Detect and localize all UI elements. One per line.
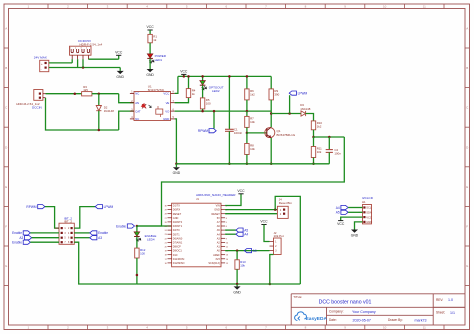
- svg-text:-: -: [41, 67, 42, 71]
- wire D3 to R10: [306, 114, 314, 121]
- resistor R4 1k: [186, 76, 195, 97]
- wire: [149, 43, 151, 54]
- svg-text:GND: GND: [163, 117, 169, 121]
- svg-text:2020-05-07: 2020-05-07: [353, 318, 371, 322]
- junction vcc stem: [183, 75, 186, 78]
- svg-text:REV:: REV:: [436, 298, 443, 302]
- wire bottom gnd rail: [137, 283, 300, 285]
- svg-text:RESET: RESET: [173, 213, 182, 216]
- net Enable flag ibt2 right: [74, 231, 108, 235]
- junction divider: [312, 136, 315, 139]
- resistor R5 100: [200, 85, 211, 111]
- wire to GND flag: [119, 68, 121, 71]
- resistor R10 1k2: [311, 121, 322, 137]
- svg-text:A4: A4: [244, 233, 248, 237]
- svg-text:1N4148: 1N4148: [104, 109, 115, 113]
- connector H1 I2CLCD: [358, 196, 373, 224]
- net A5 flag lcd: [336, 210, 363, 214]
- net RPWM flag ibt2: [38, 205, 45, 209]
- junction enable: [136, 225, 139, 228]
- wire divider node to right: [314, 136, 345, 138]
- ground: [147, 69, 154, 72]
- svg-text:1/1: 1/1: [450, 311, 455, 315]
- VCC flag lcd: [338, 220, 343, 222]
- svg-text:mark73: mark73: [415, 318, 427, 322]
- resistor R7 10k: [245, 111, 256, 133]
- resistor R1 1k: [148, 34, 152, 42]
- svg-text:Drawn By:: Drawn By:: [388, 318, 403, 322]
- svg-text:D5/T1: D5/T1: [173, 233, 180, 236]
- resistor R6 1k2: [245, 76, 255, 111]
- svg-text:D3/INT1: D3/INT1: [173, 225, 183, 228]
- junction LED2: [201, 75, 204, 78]
- svg-text:GND: GND: [146, 73, 154, 77]
- svg-text:GND: GND: [366, 220, 372, 224]
- svg-text:VCC: VCC: [163, 92, 169, 96]
- ground lcd: [351, 230, 358, 233]
- svg-text:D8/ICP: D8/ICP: [173, 246, 181, 249]
- junction R13 bottom: [236, 283, 239, 286]
- net A5 flag: [225, 228, 248, 232]
- svg-text:10k: 10k: [250, 120, 255, 124]
- net A4 flag: [225, 232, 248, 236]
- wire emitter down: [270, 138, 272, 164]
- resistor R13 10k: [235, 251, 246, 284]
- wire lpwm drop: [289, 95, 291, 113]
- svg-text:VCC: VCC: [260, 220, 268, 224]
- transistor Q1 BC547BZL1G: [265, 127, 296, 138]
- svg-text:AREF: AREF: [213, 254, 220, 257]
- wire base: [247, 132, 267, 134]
- svg-text:11: 11: [423, 326, 426, 330]
- wire vcc to J2 pin1: [264, 225, 270, 242]
- wire: [149, 58, 151, 69]
- wire to D3: [271, 113, 301, 115]
- junction emitter: [270, 163, 273, 166]
- svg-text:VCC: VCC: [337, 222, 345, 226]
- wire enable net loop: [137, 137, 344, 226]
- junction A0: [236, 249, 239, 252]
- svg-text:100: 100: [140, 252, 145, 256]
- wire enable to arduino: [137, 225, 172, 227]
- junction R5 bottom: [201, 110, 204, 113]
- net Enable flag left: [127, 224, 134, 228]
- ground: [117, 71, 124, 74]
- VCC flag power led: [148, 29, 153, 31]
- svg-text:24V MAX: 24V MAX: [34, 56, 47, 60]
- wire J2 pin3 to gnd: [270, 255, 274, 285]
- svg-text:VCC: VCC: [180, 70, 188, 74]
- junction lpwm drop: [288, 112, 291, 115]
- svg-text:11: 11: [423, 5, 426, 9]
- svg-text:10k: 10k: [250, 147, 255, 151]
- junction C1 bottom: [228, 163, 231, 166]
- svg-text:1N4148: 1N4148: [300, 107, 311, 111]
- svg-text:A0: A0: [253, 249, 257, 253]
- wire U1 VCC pin8 up: [175, 76, 178, 93]
- svg-text:SCK(D13): SCK(D13): [208, 262, 220, 265]
- svg-text:10k: 10k: [240, 263, 245, 267]
- net A0 flag: [244, 249, 251, 253]
- svg-text:A3: A3: [98, 236, 102, 240]
- junction R11 bottom: [312, 163, 315, 166]
- wire GND row: [225, 209, 277, 211]
- connector J5 24V MAX input: [34, 56, 49, 72]
- wire pin4 to VCC: [88, 58, 118, 60]
- LED1 POWER red: [147, 54, 166, 63]
- svg-text:VCC: VCC: [147, 25, 155, 29]
- wire 24V- ground rail: [49, 67, 120, 69]
- svg-text:H1: H1: [362, 200, 366, 204]
- svg-text:GND: GND: [351, 234, 359, 238]
- resistor R8 10k: [245, 133, 256, 164]
- resistor R9 390: [269, 76, 280, 127]
- VCC flag pot: [261, 224, 266, 226]
- svg-text:1k: 1k: [153, 38, 157, 42]
- svg-text:LED1: LED1: [155, 58, 163, 62]
- svg-text:Enable: Enable: [98, 231, 108, 235]
- svg-text:AN: AN: [135, 101, 139, 105]
- wire rpwm: [45, 207, 59, 229]
- svg-text:D0/RX: D0/RX: [173, 209, 181, 212]
- junction D2 top: [98, 92, 101, 95]
- svg-text:NC: NC: [135, 92, 139, 96]
- svg-text:A: A: [5, 27, 7, 31]
- svg-text:GND: GND: [214, 209, 220, 212]
- svg-text:BC547BZL1G: BC547BZL1G: [277, 133, 296, 137]
- svg-text:VCC: VCC: [366, 215, 372, 219]
- wire R3 to U1 AN: [92, 93, 119, 95]
- net RPWM flag mid: [198, 111, 216, 133]
- capacitor C1 100nF: [225, 76, 242, 163]
- svg-text:D11/MOSI: D11/MOSI: [173, 258, 185, 261]
- svg-text:LPWM: LPWM: [104, 205, 114, 209]
- svg-text:LED4: LED4: [147, 237, 155, 241]
- wire U1 GND pin5 down: [175, 119, 177, 164]
- svg-text:Enable: Enable: [12, 241, 22, 245]
- svg-text:Enable: Enable: [12, 231, 22, 235]
- junction: [82, 66, 85, 69]
- wire GND rail mid: [176, 163, 329, 165]
- junction C2 top: [328, 136, 331, 139]
- svg-text:VCC: VCC: [115, 51, 123, 55]
- wire DCC+ to R3: [46, 93, 82, 95]
- resistor R12 100: [135, 237, 146, 285]
- svg-text:A4: A4: [336, 206, 340, 210]
- svg-text:10k: 10k: [317, 150, 322, 154]
- svg-text:GND: GND: [116, 75, 124, 79]
- diode D2 1N4148: [96, 94, 114, 130]
- potentiometer J2 10k Pot: [270, 231, 284, 255]
- net LPWM flag mid: [289, 91, 307, 95]
- capacitor C2 100n: [326, 137, 342, 164]
- svg-text:A5: A5: [336, 211, 340, 215]
- wire up to CAT pin: [119, 111, 134, 130]
- svg-text:10: 10: [383, 326, 387, 330]
- resistor R3 1k5: [82, 85, 92, 96]
- svg-text:+: +: [41, 62, 43, 66]
- svg-text:VCC: VCC: [237, 189, 245, 193]
- svg-text:1.0: 1.0: [448, 298, 453, 302]
- junction: [74, 92, 77, 95]
- wire U1 VE pin7 to R4: [175, 98, 189, 103]
- svg-text:DCCIN: DCCIN: [32, 106, 42, 110]
- svg-text:RPWM: RPWM: [26, 205, 36, 209]
- svg-text:Reset Btn: Reset Btn: [279, 201, 293, 205]
- wire gnd loop over J4: [275, 196, 300, 284]
- svg-text:390: 390: [274, 93, 279, 97]
- LED2 OPTOOUT green: [200, 76, 224, 93]
- VCC flag arduino: [238, 193, 243, 195]
- svg-text:E: E: [466, 185, 468, 189]
- wire ibt2 gnd: [74, 242, 137, 284]
- net Enable flag ibt2 left1: [12, 231, 59, 235]
- svg-text:EasyEDA: EasyEDA: [306, 316, 328, 322]
- svg-text:J1: J1: [196, 197, 199, 201]
- junction: [136, 274, 139, 277]
- svg-text:F: F: [5, 225, 7, 229]
- svg-text:1k2: 1k2: [317, 125, 322, 129]
- wire lpwm: [74, 207, 95, 229]
- wire DCC return bottom: [46, 98, 119, 130]
- net Enable flag ibt2 left2: [12, 240, 59, 244]
- LED4 ENABLE green: [134, 226, 156, 241]
- wire U1 VO output: [175, 110, 272, 112]
- junction R6 bottom: [246, 110, 249, 113]
- wire jog down to AN pin: [119, 94, 134, 103]
- junction R8 bottom: [246, 163, 249, 166]
- svg-text:3: 3: [81, 48, 82, 50]
- wire lcd gnd: [355, 222, 363, 230]
- svg-text:B: B: [466, 66, 468, 70]
- svg-text:D10: D10: [173, 254, 178, 257]
- wire VIN to VCC: [225, 194, 241, 206]
- junction R4: [187, 75, 190, 78]
- junction J2 gnd: [269, 283, 272, 286]
- svg-text:Sheet:: Sheet:: [436, 311, 445, 315]
- title block: [291, 294, 465, 325]
- pin2 drop wire: [77, 59, 79, 67]
- junction D2 bottom: [98, 129, 101, 132]
- junction collector node: [270, 112, 273, 115]
- svg-text:NC: NC: [135, 117, 139, 121]
- VCC rail top wire: [178, 75, 271, 77]
- svg-text:CAT: CAT: [135, 109, 141, 113]
- net LPWM flag ibt2: [95, 205, 102, 209]
- svg-text:VE: VE: [166, 101, 170, 105]
- ground mid: [173, 164, 181, 175]
- ground bottom: [233, 284, 241, 294]
- svg-text:A3: A3: [19, 236, 23, 240]
- net A3 flag ibt2 right: [74, 236, 102, 240]
- junction base node: [246, 132, 249, 135]
- arduino nano header J1: [172, 193, 237, 267]
- svg-text:F: F: [466, 225, 468, 229]
- connector J6 HDR-M-2.54_1x2 DCCIN: [16, 90, 45, 110]
- svg-text:D9/OC1: D9/OC1: [173, 250, 183, 253]
- pin3 drop wire: [82, 59, 84, 67]
- svg-text:SDA: SDA: [366, 211, 372, 215]
- junction RPWM: [213, 110, 216, 113]
- svg-text:RPWM: RPWM: [198, 129, 208, 133]
- wire lcd vcc: [341, 217, 363, 221]
- svg-text:A: A: [466, 27, 468, 31]
- svg-text:DCC booster nano v01: DCC booster nano v01: [319, 300, 372, 306]
- arduino pins: [165, 205, 229, 265]
- svg-text:D1/TX: D1/TX: [173, 205, 180, 208]
- svg-text:SCL: SCL: [366, 206, 372, 210]
- svg-text:GND: GND: [173, 171, 181, 175]
- svg-text:RESET: RESET: [211, 213, 220, 216]
- svg-text:D4/T0: D4/T0: [173, 229, 180, 232]
- svg-text:LED2: LED2: [212, 89, 220, 93]
- svg-text:B: B: [5, 66, 7, 70]
- junction: [175, 163, 178, 166]
- net A3 flag ibt2 left: [19, 236, 59, 240]
- diode D3 1N4148: [300, 103, 311, 116]
- svg-text:Date:: Date:: [329, 318, 337, 322]
- wire 24V+ to DCDC pin1: [49, 62, 72, 64]
- svg-text:3V3: 3V3: [215, 258, 220, 261]
- svg-text:Company:: Company:: [329, 310, 344, 314]
- svg-text:D2/INT0: D2/INT0: [173, 221, 183, 224]
- net A4 flag lcd: [336, 205, 363, 209]
- wire: [149, 30, 151, 34]
- svg-text:10: 10: [383, 5, 387, 9]
- svg-text:100: 100: [206, 102, 211, 106]
- svg-text:4: 4: [86, 48, 87, 50]
- svg-text:D12/MISO: D12/MISO: [173, 262, 185, 265]
- svg-text:100nF: 100nF: [234, 131, 242, 135]
- header P1 DCDC5V HDR-F-2.54_1x4: [70, 39, 103, 59]
- svg-text:GND: GND: [173, 217, 179, 220]
- VCC flag mid: [180, 70, 188, 77]
- svg-text:ARDUINO_NANO_HEADER: ARDUINO_NANO_HEADER: [196, 193, 236, 197]
- svg-text:D6/AIN0: D6/AIN0: [173, 237, 183, 240]
- svg-text:1k2: 1k2: [250, 93, 255, 97]
- wire RESET row: [225, 213, 277, 215]
- opto-coupler U1 6N137S(TA): [130, 84, 175, 121]
- junction gnd row: [274, 208, 277, 211]
- svg-text:GND: GND: [233, 290, 241, 294]
- svg-text:1: 1: [70, 48, 71, 50]
- svg-text:100n: 100n: [334, 152, 341, 156]
- svg-text:5V: 5V: [217, 217, 220, 220]
- svg-text:LPWM: LPWM: [298, 91, 308, 95]
- VCC flag: [116, 54, 121, 56]
- pin1 drop wire: [71, 59, 73, 63]
- resistor R11 10k: [311, 137, 322, 164]
- svg-text:D7/AIN1: D7/AIN1: [173, 242, 183, 245]
- svg-text:E: E: [5, 185, 7, 189]
- connector J3 IBT_2: [55, 216, 78, 244]
- wire A0 row to pot: [225, 250, 269, 252]
- svg-text:VIN: VIN: [216, 205, 220, 208]
- junction R6 top: [246, 75, 249, 78]
- svg-text:Enable: Enable: [116, 224, 126, 228]
- push button J4 Reset Btn: [277, 198, 292, 219]
- svg-text:2: 2: [75, 48, 76, 50]
- EasyEDA logo: [295, 312, 328, 322]
- svg-text:TITLE:: TITLE:: [293, 295, 302, 299]
- svg-text:Your Company: Your Company: [352, 310, 376, 314]
- junction C1 top: [228, 75, 231, 78]
